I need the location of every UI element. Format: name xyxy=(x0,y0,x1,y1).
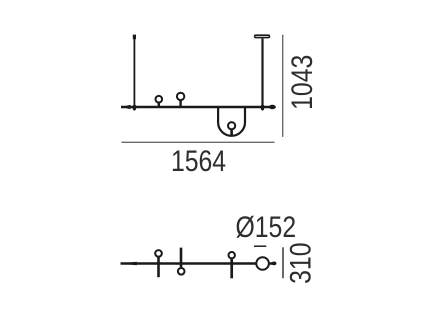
side view: sphere C xyxy=(229,252,235,258)
top view: small sphere 2 stem xyxy=(179,100,181,107)
top view: small sphere 1 xyxy=(156,96,163,103)
side view: sphere A stem xyxy=(157,257,160,277)
svg-text:1043: 1043 xyxy=(285,55,319,110)
top view: ceiling canopy xyxy=(255,35,270,37)
svg-text:Ø152: Ø152 xyxy=(235,210,296,244)
top view: bar right end cap xyxy=(269,105,276,109)
dimension line width 1564 xyxy=(122,141,275,143)
top view: small sphere 1 stem xyxy=(158,103,160,107)
side view: large sphere D xyxy=(256,257,269,270)
side view: bar right end cap xyxy=(272,262,277,266)
side view: sphere B below bar xyxy=(178,268,185,275)
top view: right rod junction node xyxy=(261,104,265,110)
side view: sphere A xyxy=(155,250,162,257)
top view: left rod junction node xyxy=(133,104,137,110)
svg-text:310: 310 xyxy=(284,243,318,284)
top view: left rod ceiling tip xyxy=(133,35,136,40)
top view: bar left end cap xyxy=(121,105,131,109)
top view: small sphere 2 xyxy=(177,93,184,100)
top view: sphere inside loop stem xyxy=(230,129,233,136)
side view: sphere C stem xyxy=(230,259,233,279)
dimension line height 310 xyxy=(282,247,284,278)
top view: U-shaped hanging loop xyxy=(218,106,245,136)
side view: vertical rod B xyxy=(180,248,183,268)
side view: lamp bar xyxy=(121,262,277,265)
top view: lamp bar xyxy=(121,106,275,109)
top view: sphere inside loop xyxy=(228,122,235,129)
dimension line height 1043 xyxy=(282,35,284,137)
top view: left suspension rod xyxy=(133,39,135,108)
svg-text:1564: 1564 xyxy=(171,144,226,178)
diameter leader line for Ø152 xyxy=(254,245,266,247)
side view: bar left end cap xyxy=(120,262,137,266)
top view: right suspension rod xyxy=(261,39,263,108)
